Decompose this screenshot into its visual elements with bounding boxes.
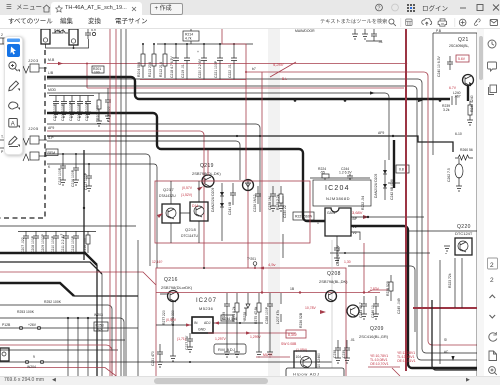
wire BP out [351,216,424,218]
capacitor C202 [61,96,67,122]
svg-text:Q217: Q217 [163,187,174,192]
value 1.299V red [246,331,261,339]
resistor R238 [386,275,393,301]
resistor R260 [455,148,473,160]
capacitor C208 [31,231,39,253]
IC204 label [325,185,350,201]
wire red y131 [47,131,204,268]
svg-text:C205 1000P: C205 1000P [85,101,89,121]
capacitor C230 [283,196,287,258]
rail bottom red [140,79,246,81]
svg-text:C230 22: C230 22 [283,205,287,218]
svg-text:424: 424 [97,328,103,332]
svg-text:C221 100P: C221 100P [214,60,218,78]
jack J201 [41,29,50,44]
svg-text:R216 100: R216 100 [83,238,87,253]
wire red y345 [0,345,112,385]
wire y226 [0,225,136,227]
svg-text:MAIN/DOOR: MAIN/DOOR [295,29,315,33]
svg-text:2: 2 [490,262,494,269]
ground Q220 [444,246,450,254]
svg-text:+: + [197,50,199,54]
value 10.78V red [305,306,326,314]
wire black bottom corner [432,300,477,370]
IC207 label [196,298,217,311]
wire red y72 to bundle [246,72,477,345]
IC207 body [192,317,213,333]
capacitor C243 [359,296,367,319]
resistor R239 [442,104,450,112]
transistor Q219 label [192,163,221,176]
svg-text:2SC4096(BL,: 2SC4096(BL, [449,44,469,48]
resistor R228 [276,186,284,211]
svg-text:b7: b7 [252,67,256,71]
svg-text:J205: J205 [28,126,39,131]
Q220 section line [408,230,477,232]
capacitor C262 electrolytic [447,158,463,186]
value 7.83V red [368,287,388,292]
svg-text:R213 234: R213 234 [148,62,152,77]
wire red x262 [261,72,263,294]
svg-text:2SC416(BL,GR): 2SC416(BL,GR) [359,334,389,339]
inductor L240 [453,91,461,99]
svg-text:C229: C229 [222,312,226,320]
resistor R275 [254,296,261,324]
capacitor C278 [268,186,276,211]
capacitor C241 [228,183,236,215]
junction dots thick [294,99,297,102]
transistor Q210 body [294,351,316,373]
svg-text:M-B: M-B [48,58,55,62]
svg-text:0.8: 0.8 [399,168,404,172]
svg-text:MUTE: MUTE [263,353,273,357]
svg-text:.01: .01 [350,338,355,342]
svg-text:C240 10 6.3V: C240 10 6.3V [437,56,441,77]
capacitor C221 [214,43,223,80]
wire sect right vertical [476,33,478,376]
svg-text:Q209: Q209 [370,326,384,332]
svg-text:5.6V: 5.6V [458,57,466,61]
svg-text:C246 10: C246 10 [371,305,375,318]
ground Q216 emitter [170,330,176,361]
wire y350 [0,349,118,351]
svg-text:DAN202U D209: DAN202U D209 [211,188,215,212]
boxed value 0.8 [396,165,409,173]
wires Q217 block [171,181,199,243]
capacitor C203 [69,96,75,122]
capacitor C244 [339,167,353,180]
svg-text:5,25V: 5,25V [273,62,284,67]
capacitor C207 [21,231,29,253]
svg-text:C222 .01: C222 .01 [228,64,232,78]
capacitor C219 [181,43,190,80]
ground top1 [352,29,358,39]
value 3.68V red [352,210,369,219]
svg-text:R223 72k: R223 72k [448,273,452,288]
svg-text:IC207: IC207 [196,298,217,304]
resistor R236 [299,312,303,328]
svg-text:P.B: P.B [436,29,442,33]
svg-text:R228 2.2k: R228 2.2k [276,194,280,210]
wire V1 thick out [351,226,477,368]
svg-text:+26V: +26V [28,323,37,327]
wire black y141 [47,141,240,180]
capacitor C229 [222,296,230,320]
transistor Q209b [347,305,359,317]
capacitor C209 [41,231,49,253]
transistor Q217 body [157,204,180,223]
capacitor C242 [390,179,394,200]
wire thick main y113 [47,113,325,221]
wire stub 6.10 [455,132,462,136]
capacitor C248 [334,236,340,266]
wire y340 [0,339,125,341]
wire V2 stub [351,232,360,240]
svg-text:D14: D14 [192,204,198,208]
svg-text:C226 1M12: C226 1M12 [253,194,257,212]
net MUTE red [256,353,290,357]
wire black y266 corner [348,266,415,332]
svg-text:AF9: AF9 [48,126,54,130]
svg-text:(1,52V): (1,52V) [181,193,192,197]
transistor Q21 [463,75,474,87]
capacitor C218 [170,43,179,80]
svg-text:W203: W203 [94,313,103,317]
svg-text:R204 584: R204 584 [137,62,141,77]
wire vert x440 [439,260,441,364]
svg-text:C241 6B: C241 6B [228,201,232,215]
ground C262 [456,186,462,191]
wire black bus y79 [47,78,418,80]
capacitor C230 inline [418,96,456,105]
resistor R202 [96,93,102,126]
svg-text:DTC114TU: DTC114TU [181,234,198,238]
wire red rail y292.5 [156,287,380,294]
section box Q216 red [156,268,346,377]
wire black y253 right [330,252,430,254]
wire red main B+ [47,62,407,65]
jack J202 [69,29,78,45]
resistor R223 [448,273,452,288]
svg-text:(0,57V: (0,57V [182,186,193,190]
svg-text:2SB798(BL,DK): 2SB798(BL,DK) [319,279,348,284]
wire red fan y272 [0,272,156,285]
wire IC204 top [310,178,370,180]
wire black y154 [47,154,150,266]
svg-text:R260 56: R260 56 [460,148,473,152]
transistor Q219 [202,150,214,187]
svg-text:NJM3868D: NJM3868D [326,196,350,201]
svg-text:1.2 6.3V: 1.2 6.3V [339,171,352,175]
svg-text:4,5v: 4,5v [268,262,276,267]
capacitor C216 [71,153,79,187]
svg-text:C243 48.7: C243 48.7 [359,302,363,318]
svg-text:C220 2.2 4V: C220 2.2 4V [198,58,202,78]
resistor R278 [171,310,175,325]
transistor Q21 label [449,37,469,48]
svg-text:C231 470: C231 470 [151,351,155,366]
svg-text:R274 8.2k: R274 8.2k [232,306,236,322]
svg-text:R212 214: R212 214 [159,62,163,77]
svg-text:C216 100P: C216 100P [71,169,75,187]
svg-text:L/B: L/B [48,71,54,75]
svg-text:P12B: P12B [2,323,11,327]
svg-text:AF9: AF9 [378,131,384,135]
svg-text:.067: .067 [454,95,461,99]
svg-text:3.2k: 3.2k [443,108,450,112]
svg-text:4.7k: 4.7k [185,37,192,41]
resistor R253 boxed [94,322,108,332]
cluster C rail [18,231,96,233]
wire vertical x138 [137,240,139,385]
diode D205 [374,160,387,200]
capacitor C226 [253,186,261,212]
transistor Q208 [326,291,337,302]
svg-text:C239: C239 [342,350,346,358]
net label AC [444,350,455,361]
svg-text:DTC124T: DTC124T [455,231,473,236]
svg-text:R232 -54: R232 -54 [361,196,365,210]
capacitor cluster C201 [49,96,94,122]
wire verts right cluster [455,258,462,308]
wire y328 [0,323,138,330]
capacitor C217 [84,163,92,191]
svg-text:ログイン: ログイン [422,4,448,13]
svg-text:C203 1000P: C203 1000P [69,101,73,121]
svg-text:Q21: Q21 [458,37,469,43]
capacitor C215 [58,153,66,185]
svg-text:.01: .01 [378,40,383,44]
Q21 section border [433,33,477,155]
svg-text:68: 68 [57,29,61,33]
node dots red [86,63,88,65]
value 8.34V red boxed [286,330,306,338]
svg-text:2: 2 [1,33,3,37]
inductor L201 [52,29,68,34]
svg-text:GAIN: GAIN [327,211,336,215]
svg-text:R252 100K: R252 100K [44,300,62,304]
wire thick fan y283 [0,283,138,296]
svg-text:9: 9 [33,355,35,359]
value 1.52V red [181,187,203,198]
svg-text:6-10: 6-10 [455,132,462,136]
IC204 body [317,208,358,236]
resistor R232 [361,196,365,210]
transistor Q218 body [190,202,208,221]
resistor R213 [148,43,156,78]
transistor Q217 label [159,187,176,198]
svg-text:1,297V: 1,297V [215,337,226,341]
svg-text:2SB798(DLorDK): 2SB798(DLorDK) [161,285,193,290]
wire red ADJ y333 [208,332,296,334]
svg-text:C238: C238 [333,350,337,358]
wire red drop x87 [86,64,88,89]
node red [245,71,247,73]
wire red vert x364 [363,243,365,293]
wire thick main y77 [47,77,450,99]
resistor R212 [159,43,167,78]
svg-text:V2: V2 [353,231,357,235]
wire med y136 AF line [47,131,453,152]
wire vertical x126 [125,29,127,385]
left edge stub T [0,135,8,140]
net label REM boxed [46,149,58,156]
section box Q217 red [155,181,310,243]
svg-text:C262 7.5: C262 7.5 [447,168,451,182]
svg-text:104: 104 [296,355,302,359]
annotation 5.25V [270,62,296,81]
svg-text:OE:10,70V1: OE:10,70V1 [370,362,389,366]
svg-text:YB228: YB228 [243,312,247,322]
ground top2 [362,29,368,39]
dashed connector outline J200 [0,50,45,218]
svg-text:W204: W204 [27,365,36,369]
svg-text:R202 100: R202 100 [96,105,100,120]
value 5.6V red box [456,55,469,62]
transistor Q210 label [291,373,311,384]
wire black bus y86 [47,85,413,87]
wire y318 with taps [0,313,124,385]
capacitor C212 [71,231,79,253]
svg-text:Q220: Q220 [457,224,471,230]
capacitor C240 [437,56,453,77]
svg-text:C227 /W/: C227 /W/ [185,336,189,350]
capacitor C227 [185,333,193,352]
svg-text:C245 .049: C245 .049 [397,298,401,314]
svg-text:2: 2 [490,277,494,284]
svg-text:S!: S! [444,338,447,342]
svg-text:1B: 1B [290,287,295,291]
wire IC207 out [213,321,263,324]
transistor Q216 label [161,277,193,290]
svg-text:L207 47k: L207 47k [276,310,280,324]
connector box bottom left [0,348,9,361]
wire thick x394 [388,140,400,188]
resistor R227 boxed [293,212,314,220]
svg-text:IC204: IC204 [325,185,350,192]
connector pin A J205 [23,152,47,161]
wire top jacks [46,39,89,48]
diode D210 [317,353,321,372]
capacitor C204 [77,96,83,122]
svg-text:IN: IN [194,321,198,325]
divider gray [331,240,333,377]
transistor Q208 label [319,271,348,284]
capacitor C222 [228,43,237,80]
svg-text:8,34V: 8,34V [288,333,298,337]
svg-text:DTA143ZU: DTA143ZU [159,194,176,198]
resistor network top rail [157,43,253,45]
svg-text:100: 100 [94,70,100,74]
svg-text:Q208: Q208 [327,271,341,277]
wire red thick x404 [405,29,407,371]
capacitor C220 electrolytic [197,43,207,80]
svg-text:R238 528: R238 528 [386,281,390,296]
diode D209 package [243,180,254,191]
capacitor C245 [397,298,401,314]
wire red thick y308 [413,307,477,309]
capacitor C206 [105,88,111,122]
svg-text:Q219: Q219 [200,163,214,169]
node dots on border [203,267,263,269]
wire black y86 bundle corner [413,86,481,360]
svg-text:6.7V: 6.7V [449,86,457,90]
svg-text:SW 0.08B: SW 0.08B [281,342,297,346]
wire red y367 [0,368,128,385]
svg-text:(0,52V: (0,52V [166,318,177,322]
svg-text:ADJ: ADJ [204,321,211,325]
svg-text:C207 .022: C207 .022 [21,237,25,253]
capacitor C239 [342,340,350,363]
wire vertical x84 [83,150,85,260]
transistor Q218 label [181,227,198,238]
svg-text:R253 100K: R253 100K [17,310,35,314]
svg-text:GND: GND [198,328,206,332]
svg-text:MOD: MOD [48,88,56,92]
wire red bus y88 [87,87,404,89]
left edge stub P [0,148,8,154]
capacitor C224 [85,28,96,39]
wire black bus y93 [47,91,389,160]
Hipow ADJ box [286,368,344,378]
wire vertical x121 [120,29,122,385]
resistor R201 [92,66,104,74]
value 4.5v red [259,262,276,270]
svg-text:1,30: 1,30 [344,260,351,264]
wire black y164 [47,164,157,268]
svg-text:A: A [11,122,15,128]
svg-text:C288 100P: C288 100P [265,306,269,324]
svg-text:?: ? [377,6,380,12]
capacitor C205 [85,96,91,122]
connector pin V J205 [23,136,47,145]
zener YB228 [243,296,250,322]
transistor Q209 label [359,326,389,339]
ground row Q216 [224,293,281,357]
wire red vertical x116 [115,29,117,385]
wire fan y262 [0,262,102,385]
wire thick stub Q21 emitter [467,85,469,101]
svg-text:B.L: B.L [282,77,287,81]
wire red vertical x110 [109,29,111,385]
wire W204 y362 [0,355,332,369]
wire black y124 [47,124,261,212]
ground row cluster A [53,112,91,117]
resistor R234 [221,315,237,321]
test point TP201 [247,257,257,268]
capacitor C211 electrolytic [60,231,69,253]
svg-text:T*201: T*201 [247,257,256,261]
svg-text:R275 47.6k: R275 47.6k [254,306,258,324]
svg-text:C278 1M: C278 1M [268,196,272,210]
svg-text:Q218: Q218 [185,227,196,232]
svg-text:12,16?: 12,16? [152,260,162,264]
wire thick fan y253 [0,253,97,385]
svg-text:C218 4.7 6.3V: C218 4.7 6.3V [170,56,174,78]
transistor Q216 [160,291,179,331]
resistor R240 [467,95,474,125]
diode D209 label [211,183,224,241]
svg-text:C219 .01: C219 .01 [181,64,185,78]
capacitor C226 top [366,29,383,44]
svg-text:M5236: M5236 [199,306,214,311]
capacitor C288 [265,296,273,324]
connector pin V J203 [23,64,47,73]
svg-text:#C: #C [444,350,449,354]
svg-text:1: 1 [317,221,319,225]
svg-text:RM ADJ: RM ADJ [218,347,236,352]
svg-text:Q216: Q216 [164,277,178,283]
